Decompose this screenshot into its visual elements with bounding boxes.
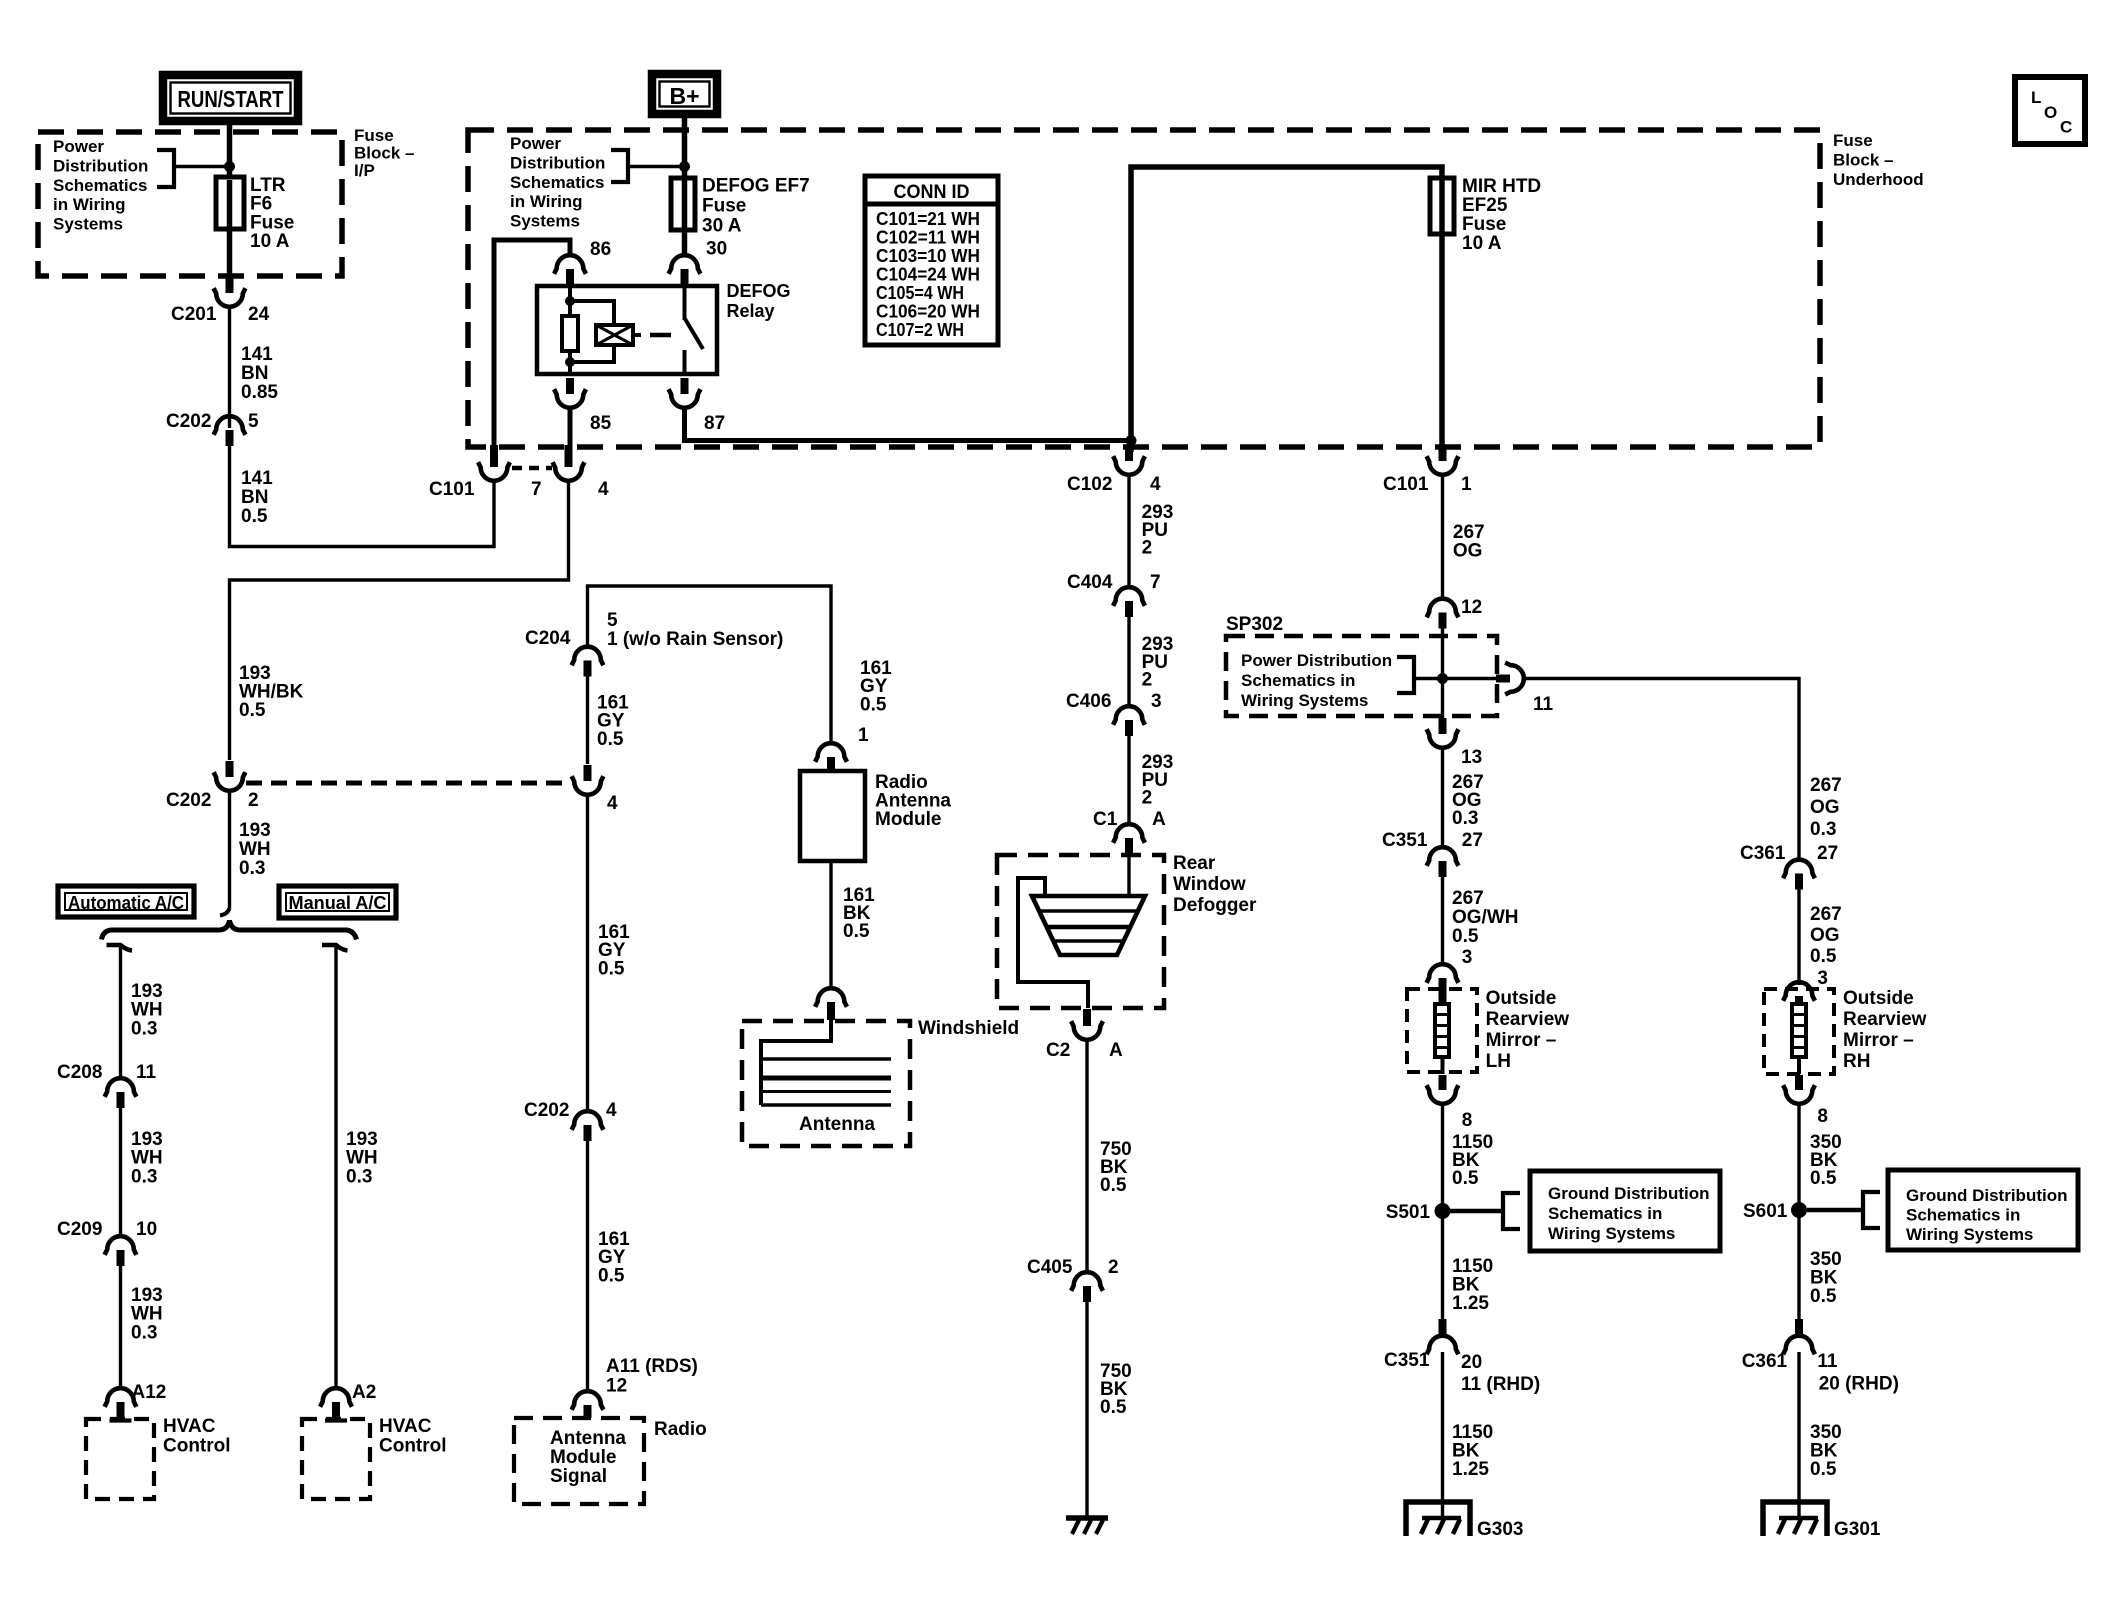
wire 1150 BK 1.25 to G303 [1441, 1352, 1444, 1520]
svg-text:C101: C101 [429, 479, 475, 500]
mirror LH heater element [1435, 1004, 1449, 1057]
wire relay 87 right to MIR junction [685, 406, 1132, 441]
junction dot coil top [565, 296, 575, 306]
splice S501 [1435, 1203, 1451, 1219]
svg-text:Wiring Systems: Wiring Systems [1548, 1224, 1675, 1243]
wire pin 11 to RH column [1522, 679, 1799, 861]
svg-text:Rear: Rear [1173, 853, 1216, 874]
svg-text:11: 11 [136, 1062, 157, 1083]
svg-text:RUN/START: RUN/START [178, 86, 284, 112]
svg-text:Rearview: Rearview [1486, 1009, 1570, 1030]
svg-text:1: 1 [1461, 474, 1472, 495]
brace AC split [102, 921, 357, 940]
relay switch contact upper [683, 286, 687, 320]
box HVAC Control (manual) [302, 1419, 370, 1499]
svg-text:S601: S601 [1743, 1201, 1788, 1222]
svg-text:Radio: Radio [654, 1419, 707, 1440]
svg-text:5: 5 [248, 411, 259, 432]
box rear window defogger dashed [997, 855, 1164, 1008]
svg-text:SP302: SP302 [1226, 614, 1283, 635]
relay switch contact lower [683, 350, 687, 374]
box Radio Antenna Module [800, 771, 865, 861]
svg-text:C405: C405 [1027, 1257, 1073, 1278]
branch curl right (Manual) [322, 945, 348, 951]
svg-text:0.5: 0.5 [1100, 1397, 1127, 1418]
relay solenoid box with X [596, 325, 633, 345]
svg-text:3: 3 [1462, 947, 1473, 968]
svg-text:8: 8 [1817, 1106, 1828, 1127]
svg-text:0.3: 0.3 [1452, 808, 1478, 829]
junction dot SP302 [1437, 673, 1448, 684]
svg-text:Block –: Block – [354, 144, 414, 163]
wire 193 WH 0.3 to AC brace [228, 789, 231, 908]
wire pin12 through SP302 to pin 13 [1441, 628, 1444, 721]
svg-text:3: 3 [1151, 691, 1162, 712]
wire 267 OG/WH to mirror LH [1441, 877, 1444, 964]
svg-text:0.5: 0.5 [1810, 1286, 1837, 1307]
wire 161 GY C204 to C202-4 [586, 676, 589, 764]
svg-text:8: 8 [1462, 1110, 1473, 1131]
connector pin 12 [1439, 613, 1447, 629]
relay pin 87 connector [681, 378, 689, 394]
wire RUN/START to fuse block [227, 121, 233, 163]
svg-text:0.85: 0.85 [241, 382, 278, 403]
svg-text:C351: C351 [1384, 1350, 1430, 1371]
svg-text:Schematics in: Schematics in [1241, 671, 1355, 690]
svg-text:Wiring Systems: Wiring Systems [1906, 1225, 2033, 1244]
connector mirror RH pin 8 [1795, 1075, 1803, 1090]
wire 161 BK module to antenna [829, 861, 832, 989]
svg-text:1: 1 [858, 725, 869, 746]
svg-text:0.5: 0.5 [597, 729, 624, 750]
svg-text:0.3: 0.3 [131, 1166, 157, 1187]
svg-text:0.5: 0.5 [1452, 926, 1479, 947]
svg-text:CONN ID: CONN ID [894, 182, 970, 203]
svg-text:Schematics in: Schematics in [1548, 1204, 1662, 1223]
wire 161 GY down to C202-4 lower [586, 793, 589, 1112]
svg-text:EF25: EF25 [1462, 195, 1508, 216]
svg-text:11: 11 [1817, 1351, 1838, 1372]
svg-text:2: 2 [1142, 538, 1153, 559]
svg-text:OG: OG [1810, 925, 1840, 946]
svg-text:Schematics: Schematics [510, 173, 605, 192]
box Antenna Module Signal (Radio) [514, 1418, 644, 1504]
SP302 dashed box [1226, 636, 1497, 716]
wire 750 BK to C405 [1085, 1038, 1088, 1273]
svg-text:0.3: 0.3 [346, 1166, 372, 1187]
relay coil resistor [562, 316, 578, 351]
svg-text:Underhood: Underhood [1833, 170, 1924, 189]
connector C202 pin 5 [226, 430, 234, 446]
relay pin 85 connector [566, 378, 574, 394]
svg-text:Fuse: Fuse [354, 126, 394, 145]
wire relay 85 to C101 pin 4 [568, 406, 573, 452]
svg-text:in Wiring: in Wiring [53, 195, 126, 214]
svg-text:11 (RHD): 11 (RHD) [1461, 1374, 1540, 1395]
svg-text:Schematics: Schematics [53, 176, 148, 195]
svg-text:0.5: 0.5 [1452, 1168, 1479, 1189]
wire S501 to ground refbox bracket [1450, 1209, 1503, 1214]
wire C1 into defogger [1127, 854, 1130, 898]
svg-text:Outside: Outside [1843, 988, 1914, 1009]
wire fuse EF25 down to C101 pin 1 [1439, 234, 1445, 452]
svg-text:Defogger: Defogger [1173, 895, 1257, 916]
LOC marker box [2015, 77, 2085, 144]
svg-text:Block –: Block – [1833, 151, 1893, 170]
wire 161 GY to radio [586, 1141, 589, 1391]
svg-text:G303: G303 [1477, 1519, 1523, 1540]
svg-text:Fuse: Fuse [1462, 214, 1506, 235]
svg-text:12: 12 [606, 1376, 627, 1397]
svg-text:B+: B+ [669, 83, 699, 109]
fuse block Underhood dashed box [468, 130, 1820, 447]
junction dot at fuse top [224, 161, 235, 172]
svg-text:Outside: Outside [1486, 988, 1557, 1009]
svg-text:87: 87 [704, 413, 725, 434]
svg-text:24: 24 [248, 304, 270, 325]
wire 293 PU to C404 [1127, 473, 1130, 588]
svg-text:0.5: 0.5 [860, 694, 887, 715]
splice S601 [1791, 1202, 1807, 1218]
wire 350 BK 0.5 to G301 [1797, 1352, 1800, 1520]
mirror RH heater element [1792, 1004, 1806, 1057]
wire bracket to junction B+ [628, 165, 685, 169]
wire C208 to C209 [119, 1108, 122, 1236]
svg-text:0.5: 0.5 [239, 700, 266, 721]
wire 267 OG down to pin 12 [1441, 473, 1444, 599]
connector mirror LH pin 3 [1439, 978, 1447, 1003]
svg-text:C204: C204 [525, 628, 571, 649]
box outside rearview mirror LH dashed [1407, 989, 1477, 1072]
wire MIR feed up and right to fuse EF25 [1131, 167, 1442, 441]
svg-text:Mirror –: Mirror – [1486, 1030, 1557, 1051]
svg-text:C202: C202 [524, 1100, 569, 1121]
box HVAC Control (automatic) [86, 1419, 154, 1499]
svg-text:WH: WH [239, 839, 271, 860]
svg-text:C102: C102 [1067, 474, 1112, 495]
svg-text:C107=2 WH: C107=2 WH [876, 320, 964, 340]
svg-text:C101: C101 [1383, 474, 1429, 495]
svg-text:DEFOG EF7: DEFOG EF7 [702, 176, 810, 197]
connector C101 pin 1 [1439, 445, 1447, 461]
svg-text:11: 11 [1533, 694, 1554, 715]
fuse MIR HTD EF25 10A [1430, 178, 1454, 234]
connector A2 [332, 1402, 340, 1418]
svg-text:Ground Distribution: Ground Distribution [1906, 1186, 2067, 1205]
svg-text:Fuse: Fuse [1833, 131, 1873, 150]
connector pin 11 (to RH mirror) [1496, 675, 1510, 683]
power feed RUN/START label box [163, 75, 298, 121]
svg-text:20 (RHD): 20 (RHD) [1819, 1374, 1899, 1395]
svg-text:Signal: Signal [550, 1466, 607, 1487]
svg-text:OG: OG [1810, 797, 1840, 818]
connector C202 pin 4 (dashed link) [584, 765, 592, 781]
svg-text:A12: A12 [132, 1382, 167, 1403]
svg-text:Wiring Systems: Wiring Systems [1241, 691, 1368, 710]
wire 141 BN 0.85 [228, 305, 231, 428]
wire B+ to fuse DEFOG [682, 114, 688, 179]
connector C351 pin 20 [1439, 1319, 1447, 1335]
relay coil branch wire [568, 286, 572, 318]
svg-text:10 A: 10 A [1462, 233, 1502, 254]
svg-text:C201: C201 [171, 304, 217, 325]
fuse block I/P dashed box [38, 132, 342, 276]
svg-text:1 (w/o Rain Sensor): 1 (w/o Rain Sensor) [607, 629, 783, 650]
svg-text:C103=10 WH: C103=10 WH [876, 246, 980, 266]
svg-text:0.5: 0.5 [1810, 1168, 1837, 1189]
wire bracket to junction [174, 165, 230, 169]
svg-text:7: 7 [1150, 572, 1161, 593]
svg-text:4: 4 [1150, 474, 1161, 495]
connector A12 [117, 1402, 125, 1418]
svg-text:Power: Power [53, 137, 104, 156]
svg-text:Module: Module [550, 1447, 617, 1468]
wire S601 to ground refbox bracket (RH) [1807, 1208, 1863, 1213]
svg-text:Control: Control [163, 1436, 231, 1457]
box Automatic A/C [58, 886, 194, 917]
wire 293 PU to C406 [1127, 617, 1130, 707]
box windshield antenna dashed [742, 1021, 910, 1146]
wire antenna trunk C204 up to radio antenna module [588, 586, 832, 743]
wire fuse to relay pin 30 [682, 230, 688, 256]
svg-text:C102=11 WH: C102=11 WH [876, 228, 980, 248]
svg-text:Manual A/C: Manual A/C [289, 893, 387, 913]
power feed B+ label box [652, 74, 717, 114]
svg-text:Distribution: Distribution [510, 153, 605, 172]
connector C2 pin A [1083, 1009, 1091, 1026]
connector pin 13 [1439, 718, 1447, 734]
relay DEFOG box [537, 286, 717, 374]
svg-text:BN: BN [241, 363, 268, 384]
connector C209 pin 10 [117, 1250, 125, 1266]
connector relay pin 86 [566, 269, 574, 285]
svg-text:C361: C361 [1740, 843, 1786, 864]
svg-text:C351: C351 [1382, 830, 1428, 851]
wire 267 OG 0.3 to C351 [1441, 746, 1444, 847]
box Ground Distribution (LH) [1530, 1171, 1720, 1251]
wire 267 OG 0.5 to mirror RH [1797, 890, 1800, 986]
svg-text:2: 2 [1142, 670, 1153, 691]
svg-text:LH: LH [1486, 1051, 1511, 1072]
svg-text:OG/WH: OG/WH [1452, 907, 1519, 928]
wire 350 BK 0.5 to C361-11 [1797, 1210, 1800, 1336]
svg-text:C202: C202 [166, 790, 211, 811]
svg-text:A11 (RDS): A11 (RDS) [606, 1356, 698, 1377]
connector C1 pin A [1125, 838, 1133, 854]
svg-text:Systems: Systems [510, 212, 580, 231]
ground G301 [1763, 1502, 1827, 1536]
relay solenoid parallel branch [570, 301, 614, 362]
connector C204 pin 5/1 [584, 661, 592, 677]
svg-text:I/P: I/P [354, 161, 375, 180]
svg-text:0.3: 0.3 [1810, 819, 1836, 840]
svg-text:C209: C209 [57, 1219, 102, 1240]
svg-text:C101=21 WH: C101=21 WH [876, 209, 980, 229]
svg-text:A2: A2 [352, 1382, 376, 1403]
connector A11 (RDS) 12 [584, 1405, 592, 1418]
wire 750 BK to ground [1085, 1302, 1088, 1518]
svg-text:141: 141 [241, 344, 273, 365]
wire 141 BN 0.5 down-right to C101 pin7 [230, 446, 495, 547]
svg-text:MIR HTD: MIR HTD [1462, 176, 1541, 197]
wire C209 to HVAC [119, 1266, 122, 1388]
svg-text:0.5: 0.5 [843, 921, 870, 942]
fuse DEFOG EF7 30A [671, 178, 695, 230]
connector C404 pin 7 [1125, 601, 1133, 617]
connector C406 pin 3 [1125, 720, 1133, 736]
svg-text:27: 27 [1462, 830, 1483, 851]
svg-text:1.25: 1.25 [1452, 1459, 1489, 1480]
svg-text:C208: C208 [57, 1062, 102, 1083]
wire 350 BK 0.5 to S601 [1797, 1102, 1800, 1210]
svg-text:7: 7 [531, 479, 542, 500]
wire fuse to C201 [227, 229, 233, 277]
connector mirror LH pin 8 [1439, 1075, 1447, 1090]
svg-text:0.5: 0.5 [1810, 946, 1837, 967]
svg-text:2: 2 [1108, 1257, 1119, 1278]
connector C202 link dashes [246, 781, 567, 786]
ground G303 [1406, 1502, 1470, 1536]
svg-text:10 A: 10 A [250, 231, 290, 252]
svg-text:30 A: 30 A [702, 216, 742, 237]
svg-text:C106=20 WH: C106=20 WH [876, 302, 980, 322]
svg-text:Windshield: Windshield [918, 1018, 1019, 1039]
wire element to pin 8 [1441, 1057, 1445, 1074]
defogger return hook wire [1018, 878, 1088, 1008]
svg-text:Relay: Relay [727, 301, 775, 321]
refbox bracket (S601) [1863, 1192, 1880, 1228]
wire bracket to S-junction [1414, 677, 1438, 681]
svg-text:C202: C202 [166, 411, 211, 432]
svg-text:G301: G301 [1834, 1519, 1881, 1540]
fuse LTR F6 10A [227, 167, 233, 179]
connector C101 pin 7 [490, 445, 498, 467]
svg-text:86: 86 [590, 239, 611, 260]
svg-text:4: 4 [607, 793, 618, 814]
svg-text:4: 4 [606, 1100, 617, 1121]
connector C202 pin 2 [226, 761, 234, 777]
svg-text:0.3: 0.3 [131, 1018, 157, 1039]
svg-text:0.5: 0.5 [598, 958, 625, 979]
svg-text:20: 20 [1461, 1352, 1482, 1373]
svg-text:A: A [1152, 809, 1166, 830]
svg-text:1.25: 1.25 [1452, 1293, 1489, 1314]
svg-text:A: A [1109, 1040, 1123, 1061]
relay actuator dashed line [650, 333, 671, 338]
connector C405 pin 2 [1083, 1286, 1091, 1302]
svg-text:Window: Window [1173, 874, 1246, 895]
svg-text:C404: C404 [1067, 572, 1113, 593]
connector C361 pin 27 [1795, 874, 1803, 890]
wire 293 PU to C1 [1127, 736, 1130, 824]
svg-text:in Wiring: in Wiring [510, 192, 583, 211]
wire element to pin 8 (RH) [1797, 1057, 1801, 1074]
svg-text:Schematics in: Schematics in [1906, 1206, 2020, 1225]
svg-text:RH: RH [1843, 1051, 1870, 1072]
refbox bracket (S501) [1503, 1193, 1520, 1229]
svg-text:267: 267 [1810, 775, 1842, 796]
svg-text:C361: C361 [1742, 1351, 1788, 1372]
svg-text:C: C [2060, 118, 2072, 137]
svg-text:2: 2 [1142, 788, 1153, 809]
antenna grid symbol [761, 1020, 831, 1105]
branch curl left (Automatic) [107, 945, 133, 951]
connector C351 pin 27 [1439, 861, 1447, 877]
svg-text:Ground Distribution: Ground Distribution [1548, 1184, 1709, 1203]
connector C202 pin 4 lower [584, 1125, 592, 1141]
svg-text:C406: C406 [1066, 691, 1111, 712]
connector C101 pin 4 [565, 445, 573, 467]
connector C102 pin 4 [1125, 445, 1133, 461]
svg-text:30: 30 [706, 239, 727, 260]
wire 1150 BK 0.5 to S501 [1441, 1102, 1444, 1211]
relay switch blade [685, 318, 704, 349]
svg-text:OG: OG [1453, 541, 1483, 562]
svg-text:0.3: 0.3 [131, 1322, 157, 1343]
svg-text:Rearview: Rearview [1843, 1009, 1927, 1030]
svg-text:0.3: 0.3 [239, 858, 265, 879]
connector mirror RH pin 3 [1795, 996, 1803, 1004]
svg-text:2: 2 [248, 790, 259, 811]
connector C361 pin 11 [1795, 1319, 1803, 1335]
svg-text:0.5: 0.5 [241, 506, 268, 527]
svg-text:C1: C1 [1093, 809, 1118, 830]
svg-text:193: 193 [239, 820, 271, 841]
svg-text:HVAC: HVAC [379, 1416, 432, 1437]
connector C101 link dashes [512, 466, 552, 471]
box outside rearview mirror RH dashed [1764, 989, 1834, 1074]
svg-text:L: L [2031, 88, 2041, 107]
svg-text:C104=24 WH: C104=24 WH [876, 265, 980, 285]
defogger grid element [1032, 896, 1145, 955]
svg-text:27: 27 [1817, 843, 1838, 864]
svg-text:141: 141 [241, 468, 273, 489]
refbox bracket (underhood) [611, 150, 628, 182]
ground (defogger) [1066, 1515, 1108, 1521]
svg-text:BN: BN [241, 487, 268, 508]
connector C201 pin 24 [226, 277, 234, 293]
junction dot B+ feed [679, 161, 690, 172]
svg-text:DEFOG: DEFOG [727, 281, 791, 301]
svg-text:85: 85 [590, 413, 612, 434]
box Ground Distribution (RH) [1888, 1170, 2078, 1250]
svg-text:Fuse: Fuse [702, 196, 746, 217]
svg-text:C105=4 WH: C105=4 WH [876, 283, 964, 303]
svg-text:Power: Power [510, 134, 561, 153]
wire 1150 BK 1.25 to C351-20 [1441, 1211, 1444, 1336]
svg-text:Antenna: Antenna [550, 1428, 626, 1449]
svg-text:3: 3 [1817, 968, 1828, 989]
svg-text:Automatic A/C: Automatic A/C [68, 893, 184, 913]
svg-text:HVAC: HVAC [163, 1416, 216, 1437]
svg-text:Power Distribution: Power Distribution [1241, 651, 1392, 670]
svg-text:Control: Control [379, 1436, 447, 1457]
connector antenna lead-in [827, 1002, 835, 1020]
table CONN ID box [865, 176, 998, 345]
wire 193 WH 0.3 automatic branch [119, 946, 122, 1080]
wire C101-4 down-left to C202 pin 2 (193 WH/BK) [230, 479, 569, 760]
svg-text:0.5: 0.5 [1100, 1175, 1127, 1196]
svg-text:10: 10 [136, 1219, 157, 1240]
svg-text:267: 267 [1810, 904, 1842, 925]
svg-text:S501: S501 [1386, 1202, 1431, 1223]
connector radio antenna module pin 1 [827, 757, 835, 772]
wire junction right to pin 11 [1443, 677, 1497, 680]
wire relay pin86 up-left to C101 pin7 [494, 240, 570, 452]
junction dot coil bottom [565, 357, 575, 367]
refbox bracket (I/P) [157, 150, 174, 187]
svg-text:Distribution: Distribution [53, 156, 148, 175]
